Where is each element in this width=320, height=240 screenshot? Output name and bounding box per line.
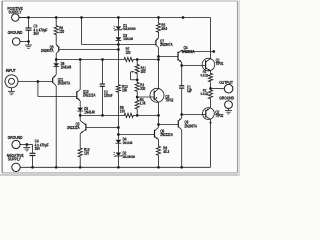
- label Q3: [165, 95, 173, 103]
- wire: R13 to D4: [117, 93, 119, 139]
- svg-text:1N4148: 1N4148: [84, 110, 95, 115]
- label Q10: [83, 90, 96, 98]
- label D1: [123, 23, 136, 31]
- transistor Q7 (2N2907A PNP): [156, 35, 159, 60]
- node: rail/D2: [117, 166, 120, 169]
- label R10: [84, 147, 90, 155]
- node: C1 bottom / Q2 base: [180, 113, 183, 116]
- ground symbol (right): [225, 109, 232, 114]
- outer page edge shading: [0, 0, 240, 176]
- wire: D3 to junctions: [117, 41, 119, 50]
- wire: node to Q3 base: [137, 96, 154, 98]
- node: ground glyph junction: [25, 143, 28, 146]
- svg-text:TIP32: TIP32: [165, 98, 173, 103]
- svg-text:330: 330: [140, 87, 145, 92]
- node: bias/Q9 base: [117, 133, 120, 136]
- label Q9: [160, 129, 173, 137]
- resistor R9 (120): [54, 18, 58, 43]
- node: net-B / Q7 collector: [157, 58, 160, 61]
- capacitor C2 (100nF): [100, 60, 105, 116]
- node: net-B / R11 top: [136, 58, 139, 61]
- trimmer R11 (200): [131, 60, 140, 80]
- node: R11 bottom: [136, 78, 139, 81]
- svg-text:0.01Ω: 0.01Ω: [200, 92, 208, 97]
- label R9: [59, 26, 64, 34]
- transistor Q8 (2N2907A PNP): [56, 43, 59, 60]
- wire: Q2 collector to negative rail corner: [182, 166, 211, 168]
- label C4: [35, 139, 50, 151]
- svg-text:120: 120: [84, 151, 89, 156]
- wire: Q9 base wire: [118, 134, 154, 136]
- transistor Q6 (2N2907A PNP): [178, 115, 181, 168]
- terminal circle NEGATIVE SUPPLY: [12, 163, 20, 171]
- label Q8: [41, 45, 54, 53]
- node: input branch: [37, 80, 40, 83]
- resistor R6 (45.3): [156, 145, 160, 168]
- label R5: [161, 23, 167, 31]
- svg-text:1µF: 1µF: [187, 88, 193, 93]
- node: Q6 base / Q9 collector tap: [157, 123, 160, 126]
- wire: negative rail: [20, 166, 181, 168]
- terminal: GROUND (upper left) label: [8, 29, 23, 35]
- svg-text:100nF: 100nF: [104, 93, 113, 98]
- resistor R13 (10k): [116, 84, 120, 93]
- svg-text:1.3k: 1.3k: [140, 101, 147, 106]
- svg-text:0.01Ω: 0.01Ω: [200, 73, 208, 78]
- terminal circle GROUND lower: [12, 140, 20, 148]
- wire: Q3 collector up to net-B: [158, 60, 160, 89]
- wire: bias column down to R13: [117, 50, 119, 85]
- svg-text:2N2907A: 2N2907A: [58, 81, 71, 86]
- label D6: [61, 61, 72, 69]
- diode D4 (1N4148): [116, 139, 122, 143]
- node: rail/R5: [157, 16, 160, 19]
- node: bias/Q5 base: [117, 126, 120, 129]
- terminal circle INPUT (coax): [5, 75, 18, 88]
- wire ground to C3 bottom: [20, 41, 29, 43]
- node: D5 / net-C: [79, 114, 82, 117]
- diode D1 (MAX6008 shunt reference): [113, 18, 122, 31]
- wire: Q4 collector to Q1 collector line: [182, 51, 214, 53]
- svg-text:120: 120: [59, 30, 64, 35]
- resistor R3 (330): [135, 80, 139, 94]
- node: net-C / Q3 emitter: [157, 114, 160, 117]
- node: rail/D1: [117, 16, 120, 19]
- wire: Q3 emitter node down: [158, 115, 160, 127]
- transistor Q3 (TIP32 PNP, power): [150, 88, 164, 102]
- terminal: NEGATIVE SUPPLY label: [7, 152, 24, 161]
- node: rail/R9: [55, 16, 58, 19]
- node: rail/Q11: [55, 166, 58, 169]
- transistor Q4 (2N2222A NPN): [178, 50, 182, 65]
- node: ground/C3 junction: [27, 40, 30, 43]
- diode D2 (MAX6008 shunt reference): [113, 143, 122, 157]
- transistor Q2 (TIP32 PNP, power): [203, 100, 215, 167]
- label R7: [126, 47, 131, 55]
- wire: input branch down to Q10 base: [38, 82, 77, 97]
- wire: rail drop to Q7 base line: [82, 18, 156, 45]
- label D4: [123, 137, 133, 145]
- svg-text:100: 100: [120, 109, 125, 114]
- svg-text:2N2907A: 2N2907A: [41, 48, 54, 53]
- capacitor C3 (4 x 470uF 35V): [26, 18, 32, 42]
- svg-text:1N4148: 1N4148: [123, 37, 133, 42]
- terminal circle GROUND right: [225, 101, 233, 109]
- node: rail/C4: [31, 166, 34, 169]
- svg-text:2N2222A: 2N2222A: [67, 126, 80, 131]
- label R2: [200, 88, 208, 96]
- wire: positive rail: [19, 17, 183, 19]
- node: negative rail / Q6 collector: [180, 166, 183, 169]
- wire: net-B left segment: [56, 59, 122, 61]
- node: rail bias drop: [80, 16, 83, 19]
- svg-text:35V: 35V: [33, 32, 39, 37]
- svg-text:TIP31: TIP31: [216, 62, 224, 67]
- label R3: [140, 83, 145, 91]
- node: bias/Q7 base: [117, 43, 120, 46]
- terminal circle OUTPUT: [224, 84, 233, 93]
- label C3: [33, 24, 48, 36]
- svg-text:35V: 35V: [35, 147, 41, 152]
- transistor Q1 (TIP31 NPN, power): [202, 18, 215, 72]
- resistor R2 (0.01 ohm): [208, 89, 212, 101]
- label D3: [123, 33, 133, 41]
- ground symbol (lower left): [23, 145, 30, 151]
- terminal circle GROUND upper: [12, 38, 20, 46]
- node: rail/R6: [157, 166, 160, 169]
- node: Q7 collector / Q4 base tap: [157, 55, 160, 58]
- capacitor C4 (4 x 470uF 35V): [30, 145, 36, 168]
- transistor Q10 (2N2222A NPN): [77, 60, 80, 105]
- wire: to Q2 base: [182, 114, 206, 116]
- label D2: [123, 151, 136, 159]
- node: C2 / net-C: [101, 114, 104, 117]
- terminal: OUTPUT label: [219, 79, 233, 85]
- node: Q8 collector / net-B: [55, 58, 58, 61]
- terminal: POSITIVE SUPPLY label: [7, 5, 23, 14]
- label Q4: [182, 46, 195, 54]
- wire: net-C left segment: [80, 114, 122, 116]
- diode D5 (1N4148): [77, 104, 83, 115]
- schematic border frame: [2, 1, 237, 173]
- svg-text:10k: 10k: [122, 88, 128, 93]
- node: rail end junction: [182, 16, 185, 19]
- label C1: [187, 85, 193, 93]
- resistor R8 (100): [123, 113, 136, 117]
- label Q11: [58, 78, 71, 86]
- diode D3 (1N4148): [116, 30, 122, 41]
- label Q6: [184, 120, 197, 128]
- wire: Q3 emitter down: [158, 102, 160, 115]
- node: bias/Q8 base: [117, 48, 120, 51]
- svg-text:1N4148: 1N4148: [61, 65, 72, 70]
- terminal circle POSITIVE SUPPLY: [12, 14, 19, 21]
- capacitor C1 (1uF): [179, 66, 184, 115]
- wire: rail branch to Q1 collector: [183, 17, 211, 19]
- transistor Q9 (2N2222A NPN): [155, 127, 159, 144]
- transistor Q11 (2N2907A PNP): [53, 75, 57, 168]
- wire: Q5 base to bias column: [86, 127, 119, 129]
- node: Q4 emitter: [180, 64, 183, 67]
- wire: Q8 base to diode chain: [59, 49, 118, 51]
- label C2: [104, 90, 113, 98]
- svg-text:2N2907A: 2N2907A: [160, 42, 173, 47]
- wire: D2 to negative rail: [117, 156, 119, 167]
- node: rail/R10: [79, 166, 82, 169]
- svg-text:GROUND: GROUND: [219, 95, 234, 101]
- label Q5: [67, 122, 80, 130]
- svg-text:OUTPUT: OUTPUT: [219, 79, 233, 85]
- wire: R3 to node: [136, 94, 138, 97]
- svg-text:2N2907A: 2N2907A: [184, 124, 197, 129]
- label R1: [200, 69, 208, 77]
- ground symbol (input): [8, 88, 15, 95]
- svg-text:2N2222A: 2N2222A: [160, 133, 173, 138]
- terminal: INPUT label: [6, 67, 16, 73]
- resistor R5 (49.9): [156, 18, 160, 36]
- wire: R8 to Q3 emitter node: [135, 114, 159, 116]
- node: net-B / C2: [101, 58, 104, 61]
- node: rail/C3: [27, 16, 30, 19]
- label R4: [140, 98, 147, 106]
- resistor R4 (1.3k): [135, 97, 139, 115]
- label R8: [120, 105, 125, 113]
- resistor R1 (0.01 ohm): [208, 71, 212, 89]
- label Q7: [160, 39, 173, 47]
- svg-text:GROUND: GROUND: [8, 29, 23, 35]
- label D5: [84, 107, 95, 115]
- svg-text:100: 100: [126, 50, 131, 55]
- label Q2: [215, 110, 223, 118]
- wire: R7 to node: [135, 59, 158, 61]
- svg-text:GROUND: GROUND: [8, 134, 23, 140]
- node: R4 / net-C: [136, 114, 139, 117]
- terminal: GROUND (right) label: [219, 95, 234, 101]
- diode D6 (1N4148): [53, 60, 59, 75]
- svg-text:MAX6008: MAX6008: [123, 154, 136, 159]
- wire: Q4 emitter to Q1 base: [182, 65, 206, 67]
- node: Q10 collector / net-B: [79, 58, 82, 61]
- wire: tap to Q4 base: [159, 56, 179, 58]
- svg-text:INPUT: INPUT: [6, 67, 16, 73]
- label R13: [122, 85, 128, 93]
- wire: ground to C4: [20, 144, 32, 146]
- svg-text:MAX6008: MAX6008: [123, 27, 136, 32]
- resistor R7 (100): [122, 57, 135, 61]
- label R6: [163, 146, 169, 154]
- terminal: GROUND (lower left) label: [8, 134, 23, 140]
- ground symbol (upper left): [25, 42, 32, 49]
- svg-text:2N2222A: 2N2222A: [83, 93, 96, 98]
- wire: input to Q11 base: [18, 81, 53, 83]
- svg-text:1N4148: 1N4148: [123, 141, 133, 146]
- svg-text:200: 200: [141, 70, 146, 75]
- svg-text:49.9: 49.9: [161, 27, 167, 32]
- svg-text:TIP32: TIP32: [215, 113, 223, 118]
- svg-text:SUPPLY: SUPPLY: [8, 156, 21, 162]
- wire: Q9 collector to Q6 base: [159, 124, 179, 126]
- node: output: [209, 87, 212, 90]
- resistor R10 (120): [78, 147, 82, 167]
- node: Q1 collector / Q4: [212, 50, 215, 53]
- label R11: [141, 66, 146, 74]
- svg-text:45.3: 45.3: [163, 149, 169, 154]
- node: R3/R4/Q3 base: [136, 96, 139, 99]
- transistor Q5 (2N2222A NPN, mirrored): [80, 115, 86, 147]
- label Q1: [216, 58, 224, 66]
- wire: to OUTPUT terminal: [211, 88, 225, 90]
- wire positive supply to rail: [19, 17, 29, 19]
